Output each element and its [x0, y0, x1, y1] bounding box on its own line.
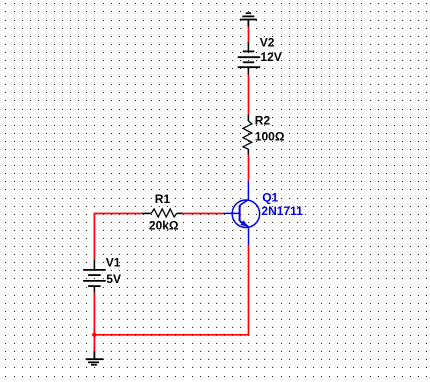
resistor R1	[142, 209, 182, 217]
junction	[92, 332, 98, 338]
wire: R2 to Q1 collector	[248, 155, 250, 181]
svg-text:V2: V2	[260, 36, 275, 50]
wire: left corner to R1	[94, 214, 142, 260]
resistor R2	[243, 114, 252, 155]
svg-text:12V: 12V	[260, 50, 281, 64]
svg-text:20kΩ: 20kΩ	[149, 218, 179, 232]
wire: V1 to junction	[93, 292, 95, 334]
svg-text:Q1: Q1	[262, 190, 278, 204]
ground (top, inverted)	[240, 13, 257, 26]
svg-text:R1: R1	[155, 192, 171, 206]
wire: junction to bottom ground	[93, 335, 95, 351]
wire: V2 to R2	[248, 75, 250, 115]
wire: emitter down and across to junction	[94, 245, 248, 335]
svg-text:100Ω: 100Ω	[255, 130, 285, 144]
battery V1	[83, 260, 106, 293]
svg-text:2N1711: 2N1711	[261, 204, 303, 218]
svg-text:5V: 5V	[106, 272, 121, 286]
transistor Q1	[223, 181, 260, 245]
svg-text:R2: R2	[255, 113, 271, 127]
ground (bottom)	[86, 351, 104, 365]
battery V2	[238, 42, 261, 75]
svg-text:V1: V1	[106, 256, 121, 270]
wire: R1 to Q1 base	[182, 213, 223, 215]
wire: top ground to V2	[248, 27, 250, 42]
